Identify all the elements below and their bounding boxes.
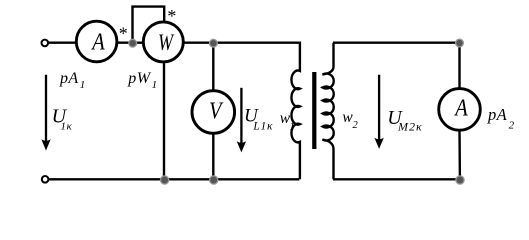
svg-text:A: A: [454, 95, 468, 121]
svg-text:*: *: [167, 6, 176, 26]
svg-text:V: V: [209, 98, 223, 124]
svg-text:A: A: [91, 30, 105, 56]
svg-text:*: *: [119, 24, 128, 44]
svg-text:W: W: [158, 30, 175, 56]
